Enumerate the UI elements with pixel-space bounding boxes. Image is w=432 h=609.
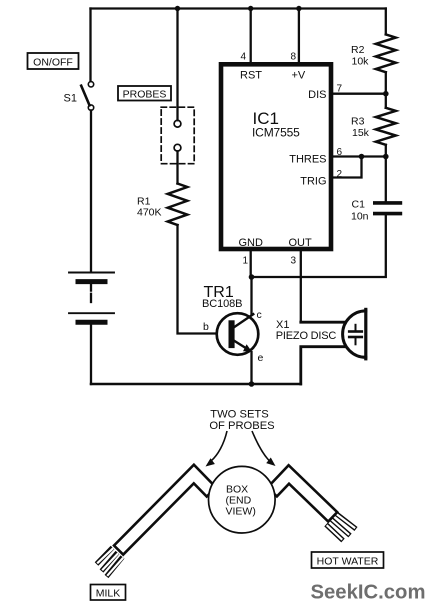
left probe tube (114, 465, 216, 555)
svg-text:e: e (258, 352, 264, 364)
transistor Q TR1 (217, 313, 259, 355)
svg-text:c: c (257, 309, 262, 321)
wire probes branch (176, 9, 178, 121)
arrow to left probes (206, 431, 228, 467)
wire right rail to R2 (385, 9, 387, 35)
svg-text:470K: 470K (137, 207, 162, 219)
label MILK (91, 585, 126, 601)
svg-text:HOT WATER: HOT WATER (317, 556, 379, 568)
wire probe to R1 (176, 151, 178, 183)
svg-text:THRES: THRES (289, 154, 326, 166)
left probe wires (97, 548, 123, 577)
dashed probes box (161, 107, 194, 164)
svg-text:PIEZO DISC: PIEZO DISC (276, 330, 337, 342)
wire switch to battery (90, 110, 92, 271)
node junction top rail pin8 (296, 6, 301, 11)
label X1 PIEZO DISC (276, 319, 337, 342)
svg-text:b: b (203, 321, 209, 333)
capacitor C1 (375, 203, 401, 214)
resistor R1 (168, 184, 188, 225)
svg-text:7: 7 (337, 84, 343, 95)
label ON/OFF (28, 53, 79, 69)
wire DIS node to R3 (385, 94, 387, 108)
node junction pin1/collector (249, 274, 255, 280)
wire bottom rail (91, 383, 301, 386)
label HOT WATER (312, 552, 384, 568)
svg-text:GND: GND (239, 237, 264, 249)
wire THRES node to C1 (385, 157, 387, 202)
right probe wires (326, 514, 356, 541)
label R2 value (351, 44, 369, 68)
label R1 value (137, 196, 162, 219)
battery B1 (69, 273, 114, 323)
node junction top rail pin4 (248, 6, 253, 11)
svg-text:6: 6 (337, 147, 343, 158)
svg-text:RST: RST (240, 70, 262, 82)
svg-text:ICM7555: ICM7555 (252, 126, 300, 140)
arrow to right probes (252, 431, 276, 466)
label BOX END VIEW (226, 484, 256, 518)
wire collector up to gnd node (250, 277, 252, 314)
label TR1 (202, 284, 242, 310)
svg-text:PROBES: PROBES (123, 89, 167, 101)
svg-text:TWO SETS: TWO SETS (210, 409, 268, 421)
node junction emitter bottom rail (249, 381, 255, 387)
wire R3 to THRES node (385, 145, 387, 157)
wire battery to bottom rail (90, 325, 92, 384)
wire left vertical to switch (89, 9, 91, 82)
label R3 value (351, 116, 370, 140)
wire THRES pin6 (333, 155, 386, 157)
wire pin4 (250, 9, 252, 65)
svg-text:MILK: MILK (96, 588, 121, 600)
piezo X1 (343, 309, 366, 358)
svg-text:15k: 15k (352, 127, 370, 139)
right probe tube (268, 465, 338, 521)
svg-text:S1: S1 (64, 93, 77, 105)
svg-text:4: 4 (240, 52, 246, 63)
node junction top rail probes branch (175, 6, 180, 11)
node junction THRES trig stub (359, 154, 365, 160)
wire pin8 (298, 9, 300, 65)
switch S1 (81, 82, 94, 111)
svg-text:VIEW): VIEW) (226, 506, 256, 518)
resistor R2 (376, 34, 396, 72)
wire R2 to DIS node (385, 72, 387, 94)
svg-text:C1: C1 (352, 199, 366, 211)
svg-text:1: 1 (243, 256, 249, 267)
svg-text:SeekIC.com: SeekIC.com (311, 582, 426, 604)
wire piezo top terminal (301, 321, 345, 324)
svg-text:10n: 10n (351, 211, 369, 223)
IC1 box (221, 64, 331, 249)
svg-text:OUT: OUT (289, 237, 313, 249)
label PROBES (118, 86, 171, 101)
svg-text:8: 8 (290, 52, 296, 63)
wire IC pin1 GND down (250, 251, 253, 277)
wire piezo bottom terminal (301, 347, 345, 384)
wire emitter down to rail (250, 352, 252, 384)
svg-text:R3: R3 (351, 116, 365, 128)
svg-text:ON/OFF: ON/OFF (33, 57, 73, 69)
svg-text:BC108B: BC108B (202, 298, 242, 310)
svg-text:TRIG: TRIG (300, 176, 326, 188)
svg-text:2: 2 (337, 169, 343, 180)
wire IC pin3 OUT down (300, 251, 302, 322)
svg-text:3: 3 (291, 256, 297, 267)
label C1 value (351, 199, 369, 223)
svg-text:DIS: DIS (308, 89, 326, 101)
svg-text:+V: +V (292, 70, 306, 82)
resistor R3 (376, 108, 396, 145)
node junction DIS (383, 91, 389, 97)
box end view circle (209, 466, 276, 533)
wire gnd node to C1 bottom (252, 216, 386, 278)
wire R1 to base (178, 225, 228, 334)
svg-text:R2: R2 (351, 44, 365, 56)
wire top rail (91, 7, 386, 9)
node junction THRES right (383, 154, 389, 160)
svg-text:10k: 10k (352, 56, 370, 68)
svg-text:OF PROBES: OF PROBES (209, 420, 274, 432)
label TWO SETS OF PROBES (209, 409, 274, 432)
wire DIS pin7 (333, 93, 386, 95)
wire TRIG pin2 (333, 157, 362, 178)
probe contacts (174, 120, 181, 127)
